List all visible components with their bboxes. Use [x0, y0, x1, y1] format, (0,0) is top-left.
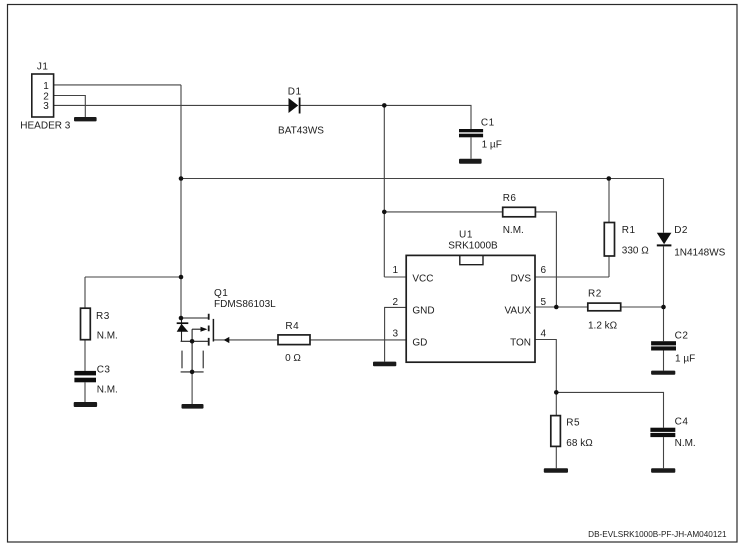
gate bar	[212, 319, 214, 342]
resistor R3	[81, 308, 118, 342]
svg-text:VAUX: VAUX	[505, 305, 532, 316]
channel dashes	[208, 314, 210, 346]
source to ground	[191, 372, 193, 404]
svg-text:68 kΩ: 68 kΩ	[566, 438, 593, 449]
wire R5 bottom to ground	[555, 446, 557, 468]
op-amp U1 SRK1000B	[392, 230, 546, 363]
svg-text:1: 1	[392, 265, 398, 276]
wire C2 bottom plate to ground	[663, 351, 665, 371]
source bar	[181, 340, 209, 342]
node Q1 drain	[179, 316, 184, 321]
ground (C2)	[651, 371, 675, 375]
svg-text:R5: R5	[566, 417, 580, 428]
node Q1 source	[190, 339, 195, 344]
wire U1 pin2 GND to ground	[385, 307, 407, 361]
svg-text:N.M.: N.M.	[675, 438, 696, 449]
svg-text:DB-EVLSRK1000B-PF-JH-AM040121: DB-EVLSRK1000B-PF-JH-AM040121	[588, 530, 727, 539]
svg-text:FDMS86103L: FDMS86103L	[214, 299, 276, 310]
resistor R2	[588, 288, 621, 331]
wire J1 pin1 to left rail	[54, 84, 181, 86]
ground (R5)	[544, 468, 568, 473]
bulk vertical	[191, 329, 193, 372]
wire U1 pin6 DVS to R1 bottom	[535, 276, 609, 278]
wire J1 pin2 to ground	[54, 96, 86, 118]
wire R6 right to VAUX node	[535, 212, 556, 307]
svg-text:N.M.: N.M.	[97, 384, 118, 395]
wire R2 right to node C2	[621, 306, 664, 308]
wire R3 top lead	[84, 277, 86, 308]
capacitor C2	[651, 330, 695, 364]
svg-text:1N4148WS: 1N4148WS	[674, 247, 725, 258]
resistor R1	[604, 223, 649, 257]
wire R1 bottom lead	[608, 256, 610, 277]
wire VCC branch vertical (node after D1)	[383, 105, 385, 277]
ground (C1)	[459, 159, 482, 164]
gate arrow on R4 wire	[224, 337, 230, 343]
wire U1 pin5 VAUX to R2 left	[535, 306, 588, 308]
node R6 left	[382, 210, 387, 215]
capacitor C4	[650, 417, 695, 450]
svg-text:N.M.: N.M.	[503, 225, 524, 236]
svg-text:DVS: DVS	[510, 273, 531, 284]
body diode cathode bar	[177, 322, 189, 324]
capacitor C3	[74, 365, 117, 396]
ground (Q1 source)	[182, 404, 204, 409]
wire rail corner down to D2 anode	[663, 179, 665, 233]
diode D1 BAT43WS	[278, 86, 324, 136]
connector J1	[20, 62, 70, 132]
ground (J1 pin2)	[74, 117, 97, 121]
node R1 top	[607, 176, 612, 181]
node after D1	[382, 103, 387, 108]
wire C4 bottom plate to ground	[663, 437, 665, 468]
svg-text:D1: D1	[288, 86, 302, 97]
svg-text:U1: U1	[459, 230, 473, 241]
wire TON node down to R5 top	[555, 392, 557, 415]
wire node to R6 left	[384, 211, 502, 213]
wire TON node rail to C4	[556, 392, 663, 427]
resistor R5	[551, 416, 593, 450]
resistor R6	[503, 193, 536, 236]
svg-text:6: 6	[541, 265, 547, 276]
svg-text:4: 4	[541, 328, 547, 339]
svg-text:3: 3	[43, 101, 49, 112]
body diode triangle	[177, 324, 189, 332]
svg-text:R3: R3	[96, 311, 110, 322]
capacitor C1	[459, 118, 502, 159]
svg-text:C2: C2	[675, 330, 689, 341]
svg-text:C4: C4	[675, 417, 689, 428]
node R3 branch	[179, 275, 184, 280]
svg-text:VCC: VCC	[412, 273, 433, 284]
node VAUX	[554, 305, 559, 310]
bulk arrow	[192, 328, 201, 330]
wire top rail y178.5	[181, 178, 664, 180]
node C2/R2	[661, 305, 666, 310]
wire node to C2 top plate	[663, 307, 665, 341]
svg-text:GND: GND	[412, 305, 434, 316]
wire R1 top lead	[608, 179, 610, 223]
wire U1 pin3 GD to R4 right	[310, 339, 406, 341]
svg-text:330 Ω: 330 Ω	[622, 246, 649, 257]
wire R4 left to Q1 gate	[213, 339, 278, 341]
svg-text:Q1: Q1	[214, 288, 228, 299]
svg-text:GD: GD	[412, 338, 427, 349]
svg-text:R6: R6	[503, 193, 517, 204]
body diode vertical	[181, 318, 183, 341]
drain wire into channel	[181, 317, 208, 319]
wire left rail (J1 pin1 down to Q1 drain)	[180, 85, 182, 318]
node Q1 source bottom	[190, 370, 195, 375]
node junction dots	[179, 103, 666, 395]
svg-text:0 Ω: 0 Ω	[285, 353, 301, 364]
wire left branch to R3	[85, 276, 181, 278]
diode D2 1N4148WS	[657, 225, 726, 258]
svg-text:BAT43WS: BAT43WS	[278, 125, 324, 136]
ground (C4)	[651, 468, 675, 473]
svg-text:1 µF: 1 µF	[482, 139, 502, 150]
svg-text:1.2 kΩ: 1.2 kΩ	[588, 320, 618, 331]
svg-text:R2: R2	[588, 288, 602, 299]
svg-text:1 µF: 1 µF	[675, 354, 695, 365]
node rail/left	[179, 176, 184, 181]
svg-text:R1: R1	[622, 225, 636, 236]
wire D1 cathode to C1 corner	[300, 105, 471, 129]
svg-text:C3: C3	[97, 365, 111, 376]
svg-text:R4: R4	[285, 321, 299, 332]
svg-text:J1: J1	[37, 62, 49, 73]
ground (C3)	[74, 402, 97, 407]
wire J1 pin3 to D1 anode	[54, 104, 289, 106]
svg-text:D2: D2	[674, 225, 688, 236]
wire R3 bottom to C3 top	[84, 340, 86, 371]
svg-text:2: 2	[392, 297, 398, 308]
svg-text:C1: C1	[481, 118, 495, 129]
node TON	[554, 390, 559, 395]
wire VCC into U1 pin 1	[384, 276, 406, 278]
svg-text:3: 3	[392, 328, 398, 339]
wire C3 bottom to ground	[84, 382, 86, 402]
ground (U1 GND pin)	[373, 362, 396, 367]
source bottom bar	[181, 371, 204, 373]
source bracket left	[181, 351, 183, 369]
wire U1 pin4 TON down to node	[535, 340, 556, 393]
svg-text:SRK1000B: SRK1000B	[448, 241, 498, 252]
source bracket right	[202, 351, 204, 369]
svg-text:5: 5	[541, 297, 547, 308]
transistor Q1 FDMS86103L	[177, 288, 276, 404]
resistor R4	[278, 321, 310, 364]
svg-text:N.M.: N.M.	[97, 331, 118, 342]
wire D2 cathode down to node C2	[663, 246, 665, 307]
svg-text:HEADER 3: HEADER 3	[20, 121, 70, 132]
svg-text:TON: TON	[510, 338, 531, 349]
